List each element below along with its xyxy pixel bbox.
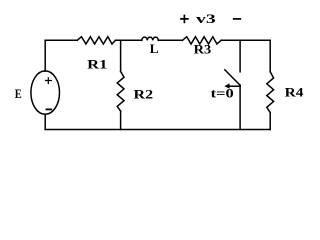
inductor L [142,37,159,40]
wire switch upper stub [239,40,241,72]
wire R2 branch lower [120,111,122,129]
wire left lower [44,114,46,129]
svg-text:R1: R1 [87,58,107,72]
svg-text:R4: R4 [285,85,304,99]
source minus sign [46,108,53,110]
wire top middle-left segment [115,39,141,41]
wire top middle-right segment [158,39,182,41]
resistor R1 [77,37,115,44]
wire top right segment [221,39,270,41]
svg-text:t=0: t=0 [211,86,234,101]
wire switch lower [239,85,241,129]
wire right lower [269,113,271,130]
v3 plus sign [180,15,189,24]
svg-text:L: L [150,42,159,56]
wire bottom [45,129,270,131]
source E ellipse [31,71,60,114]
svg-text:v3: v3 [196,11,216,26]
switch blade [225,70,240,85]
wire right upper [269,40,271,71]
wire left upper [44,40,46,71]
resistor R2 [117,71,124,111]
wire top left segment [45,39,77,41]
resistor R3 [182,37,221,44]
svg-text:R3: R3 [194,42,212,56]
svg-text:E: E [15,87,22,101]
source plus sign [45,77,52,84]
svg-text:R2: R2 [134,87,154,101]
wire R2 branch upper [120,40,122,71]
v3 minus sign [233,18,241,20]
switch arrowhead [224,83,229,88]
switch arrow tail [230,85,241,87]
resistor R4 [267,72,274,113]
